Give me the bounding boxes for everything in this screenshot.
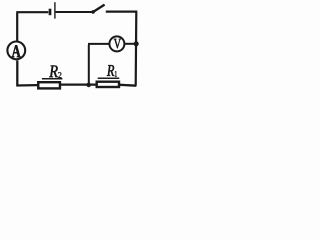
node junction dot on bottom wire (left of R1) xyxy=(86,83,91,88)
battery B (cell): short thick negative plate xyxy=(49,9,52,16)
voltmeter V: letter V xyxy=(114,39,121,49)
resistor R2: box body xyxy=(38,82,60,88)
resistor R1: box body xyxy=(97,82,119,87)
resistor R1: label underline xyxy=(98,77,120,79)
switch S: open lever arm xyxy=(92,5,104,13)
wire bottom rail (full width, boxes drawn on top) xyxy=(16,61,136,87)
wire battery to switch xyxy=(56,11,93,13)
ammeter A: letter A xyxy=(12,45,21,57)
wire top-left: left rail upper segment + top-left corner + top wire to battery xyxy=(16,12,48,41)
wire voltmeter to right-rail junction xyxy=(125,43,137,45)
resistor R1: label R1 xyxy=(107,65,114,76)
resistor R2: label underline xyxy=(42,78,63,80)
voltmeter V: circle body xyxy=(109,36,124,51)
node junction dot on right rail at voltmeter level xyxy=(134,41,139,46)
switch S: pivot contact dot xyxy=(91,10,95,14)
wire voltmeter branch: down from voltmeter level to bottom junction xyxy=(88,44,109,85)
wire switch to top-right corner + right rail down xyxy=(106,12,138,86)
resistor R2: label R2 xyxy=(49,66,58,78)
battery B (cell): long thin positive plate xyxy=(54,2,56,18)
ammeter A: circle body xyxy=(7,42,25,60)
